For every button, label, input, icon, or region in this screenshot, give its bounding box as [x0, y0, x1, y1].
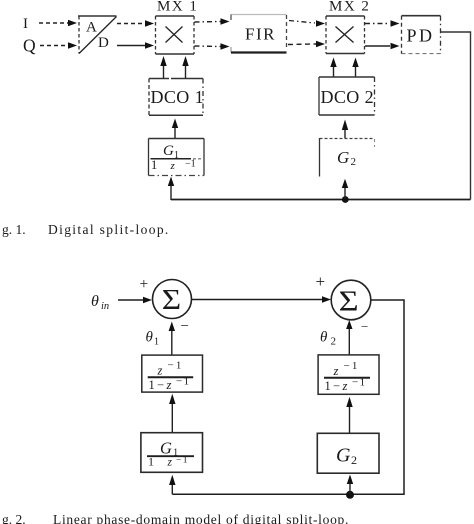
block z/(1-z) integrator 1 fig2 — [142, 355, 203, 392]
svg-text:+: + — [316, 272, 326, 291]
svg-text:θ: θ — [146, 330, 154, 346]
svg-text:Q: Q — [23, 36, 36, 56]
wire Q input dashed arrow — [40, 45, 68, 47]
svg-text:DCO 1: DCO 1 — [151, 87, 205, 107]
oscillator DCO1 box — [149, 79, 204, 116]
svg-text:G: G — [163, 143, 174, 159]
wire DCO1 to MX1 right arrow — [185, 66, 187, 78]
svg-text:−1: −1 — [344, 360, 360, 372]
wire G2 to DCO2 arrow fig1 — [344, 130, 346, 138]
wire feedback up into G1 box fig2 — [171, 485, 173, 494]
block G1 accumulator fig2 — [141, 433, 203, 473]
svg-text:I: I — [23, 16, 28, 32]
wire G1 to DCO1 arrow — [174, 128, 176, 138]
svg-text:−: − — [333, 379, 340, 393]
svg-text:2: 2 — [351, 156, 357, 168]
wire MX1 to FIR bottom dash-dot arrow — [195, 45, 221, 48]
svg-text:z: z — [167, 457, 173, 469]
svg-text:2: 2 — [351, 453, 357, 467]
svg-text:−: − — [361, 319, 368, 334]
wire MX1 to FIR top dash-dot arrow — [195, 21, 221, 24]
svg-text:g. 2.: g. 2. — [2, 512, 26, 524]
wire FIR to MX2 bottom dashed arrow — [288, 43, 316, 46]
block PD phase detector — [402, 16, 441, 54]
svg-text:Σ: Σ — [339, 287, 359, 318]
wire A/D to MX1 bottom solid arrow — [117, 45, 145, 47]
svg-text:D: D — [98, 35, 109, 51]
block A/D converter — [78, 16, 117, 54]
svg-text:PD: PD — [407, 26, 435, 46]
svg-text:z: z — [333, 364, 339, 378]
wire PD output to feedback (right side) — [441, 32, 471, 200]
svg-text:+: + — [140, 276, 149, 293]
block G1 accumulator fig1 — [149, 139, 205, 176]
svg-text:Linear phase-domain model of d: Linear phase-domain model of digital spl… — [53, 512, 349, 524]
wire summer1 to summer2 arrow — [192, 299, 323, 301]
wire MX2 to PD bottom solid arrow — [365, 45, 390, 47]
block G2 gain fig1 — [320, 138, 375, 177]
svg-text:FIR: FIR — [245, 25, 276, 44]
svg-text:MX 1: MX 1 — [157, 0, 198, 15]
wire DCO2 to MX2 left arrow — [333, 67, 335, 77]
svg-text:−1: −1 — [185, 159, 196, 170]
wire feedback up into G1 accumulator — [170, 186, 172, 200]
svg-text:1: 1 — [325, 379, 331, 393]
svg-text:2: 2 — [331, 336, 337, 348]
svg-text:−: − — [181, 319, 189, 335]
svg-text:Digital split-loop.: Digital split-loop. — [48, 222, 170, 237]
svg-text:1: 1 — [154, 337, 159, 348]
svg-text:1: 1 — [151, 158, 157, 172]
svg-text:z: z — [166, 378, 172, 392]
wire integrator2 to summer2 arrow — [348, 329, 350, 355]
svg-text:G: G — [337, 148, 349, 167]
wire G2 box to integrator2 arrow fig2 — [349, 407, 351, 433]
block z/(1-z) integrator 2 fig2 — [318, 355, 379, 394]
wire junction to G2 arrow fig1 — [344, 188, 346, 199]
wire I input dashed arrow — [39, 22, 68, 24]
summer U2 sigma — [331, 280, 371, 320]
svg-text:z: z — [342, 379, 348, 393]
svg-text:1: 1 — [148, 455, 154, 469]
node junction dot fig1 — [342, 196, 349, 203]
filter FIR box — [231, 15, 287, 53]
summer U1 sigma — [153, 280, 192, 319]
svg-text:−1: −1 — [176, 456, 189, 466]
block G2 gain fig2 — [317, 433, 379, 473]
svg-text:z: z — [170, 160, 176, 172]
svg-text:DCO 2: DCO 2 — [321, 87, 375, 107]
mixer MX2 box — [326, 16, 365, 54]
svg-text:−1: −1 — [176, 376, 191, 388]
wire A/D to MX1 top dashed arrow — [117, 23, 145, 25]
mixer MX1 box — [156, 16, 195, 54]
wire integrator1 to summer1 arrow — [171, 331, 173, 355]
wire summer2 output right and down and feedback bottom fig2 — [172, 300, 404, 494]
wire G1 box to integrator1 arrow fig2 — [171, 404, 173, 433]
svg-text:Σ: Σ — [162, 285, 181, 316]
svg-text:g. 1.: g. 1. — [2, 222, 26, 237]
svg-text:−1: −1 — [352, 377, 367, 389]
svg-text:−1: −1 — [168, 360, 184, 372]
svg-text:G: G — [160, 439, 172, 458]
wire MX2 to PD top dash-dot arrow — [365, 23, 390, 25]
svg-text:1: 1 — [149, 378, 155, 392]
svg-text:A: A — [86, 20, 97, 36]
wire junction to G2 box arrow fig2 — [349, 484, 351, 494]
wire DCO2 to MX2 right arrow — [355, 67, 357, 77]
svg-text:MX 2: MX 2 — [329, 0, 370, 15]
svg-text:θ: θ — [91, 293, 99, 310]
svg-text:G: G — [336, 445, 351, 467]
node junction dot fig2 — [346, 491, 354, 499]
wire DCO1 to MX1 left arrow — [163, 66, 165, 78]
oscillator DCO2 box — [319, 77, 375, 115]
wire FIR to MX2 top dash-dot arrow — [289, 21, 315, 24]
svg-text:−: − — [157, 378, 164, 392]
wire theta_in to summer 1 arrow — [118, 299, 143, 301]
wire feedback bottom line fig1 — [171, 199, 471, 201]
svg-text:θ: θ — [320, 330, 328, 346]
svg-text:z: z — [157, 364, 163, 378]
svg-text:in: in — [101, 301, 109, 312]
